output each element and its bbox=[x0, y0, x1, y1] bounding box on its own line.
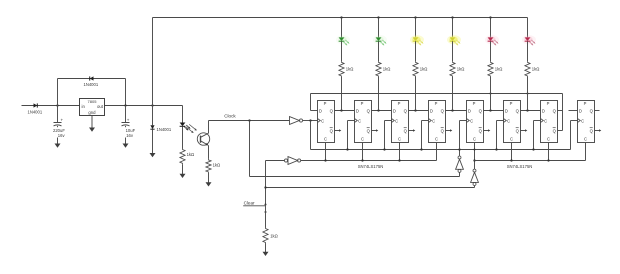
wire — Q1 emitter down to R8 bbox=[208, 145, 210, 159]
node — clear line bank2 at FF7 bbox=[547, 159, 549, 161]
resistor R6 1k bbox=[525, 61, 530, 77]
wire — rail down to green LED D6 bbox=[378, 18, 380, 38]
wire — bypass branch left riser bbox=[57, 79, 59, 106]
label 1N4001 for D1 bbox=[28, 110, 43, 115]
label 220uF 16v bbox=[52, 127, 67, 138]
ground — D3 bbox=[150, 152, 156, 158]
svg-text:1N4001: 1N4001 bbox=[157, 127, 172, 132]
wire — 7805 out to right bbox=[105, 105, 183, 107]
wire — FF1 clear pin down bbox=[325, 143, 327, 161]
svg-text:1kΩ: 1kΩ bbox=[383, 66, 391, 71]
wire — R4 down to Q4 line bbox=[452, 77, 454, 111]
capacitor C2 10uF — wire bbox=[125, 106, 127, 123]
wire — R2 down to Q2 line bbox=[378, 77, 380, 111]
wire — FF7 Qbar stub to feedback drop bbox=[558, 130, 563, 132]
inverter U3b — input bubble bbox=[473, 183, 476, 186]
wire — yellow LED D8 to resistor R4 bbox=[452, 41, 454, 61]
label 1k for R5 bbox=[495, 66, 503, 71]
wire — main line corner down to LED1 bbox=[182, 106, 184, 123]
flip-flop FF6 (1/4 SN74LS175N) bbox=[504, 101, 521, 143]
wire — LED1 to R7 bbox=[182, 127, 184, 149]
svg-text:SN74LS175N: SN74LS175N bbox=[507, 164, 533, 169]
wire — FF5 clear pin down bbox=[474, 143, 476, 161]
label 1k for R4 bbox=[457, 66, 465, 71]
wire — rail down to red LED D10 bbox=[527, 18, 529, 38]
diode D2 1N4001 (regulator bypass) bbox=[90, 76, 94, 80]
label 1k for R3 bbox=[420, 66, 428, 71]
wire — Vcc top rail bbox=[153, 17, 528, 19]
resistor R7 1k (LED current limit) bbox=[180, 149, 185, 165]
wire — FF7 clock riser from clock line bbox=[532, 121, 540, 151]
wire — C1 to ground bbox=[57, 126, 59, 143]
node — clear line bank2 at FF6 bbox=[510, 159, 512, 161]
label + for C1 bbox=[61, 117, 64, 122]
node — clear line at FF3 bbox=[398, 159, 400, 161]
flip-flop FF4 (1/4 SN74LS175N) bbox=[429, 101, 446, 143]
wire — FF4 clock riser from clock line bbox=[420, 121, 428, 151]
node — top rail tap 2 bbox=[377, 16, 379, 18]
svg-text:C: C bbox=[395, 119, 398, 124]
svg-text:D: D bbox=[319, 108, 322, 113]
red LED D10 bbox=[522, 35, 536, 45]
wire — R6 down to Q6 line bbox=[527, 77, 529, 111]
svg-text:+: + bbox=[61, 117, 64, 122]
inverter U3a — input bubble bbox=[458, 169, 461, 172]
svg-text:1kΩ: 1kΩ bbox=[420, 66, 428, 71]
wire — FF6 Q to FF7 D bbox=[521, 110, 541, 112]
wire — FF4 Q to FF5 D bbox=[446, 110, 467, 112]
wire — R5 down to Q5 line bbox=[490, 77, 492, 111]
wire — FF3 Q to FF4 D bbox=[409, 110, 429, 112]
wire — FF2 clear pin down bbox=[362, 143, 364, 161]
label SN74LS175N (second package) bbox=[507, 164, 533, 169]
node — top rail tap 4 bbox=[451, 16, 453, 18]
svg-text:P: P bbox=[324, 101, 327, 106]
wire — FF8 clock riser bbox=[571, 121, 578, 150]
capacitor C1 220uF — wire bbox=[57, 106, 59, 123]
inverter U2b — input bubble bbox=[284, 159, 287, 162]
svg-text:1kΩ: 1kΩ bbox=[213, 163, 221, 168]
wire — FF2 Qbar stub (n.c.) bbox=[372, 129, 379, 131]
wire — AC input main supply line bbox=[22, 105, 80, 107]
node — Q4 to indicator column bbox=[451, 109, 453, 111]
svg-text:1kΩ: 1kΩ bbox=[457, 66, 465, 71]
inverter U3a — triangle bbox=[456, 159, 464, 169]
wire — U3b output to clear line bank 2 bbox=[474, 161, 476, 170]
wire — clock line from Q1 to inverter U2a bbox=[209, 120, 290, 122]
inverter U3b — output bubble bbox=[473, 169, 476, 172]
svg-text:C: C bbox=[584, 137, 587, 142]
label 1k for R8 bbox=[213, 163, 221, 168]
wire — clock distribution line under FFs bbox=[311, 149, 571, 151]
wire — FF8 clear pin down bbox=[585, 143, 587, 161]
inverter U2b — output bubble bbox=[298, 159, 301, 162]
svg-text:7805: 7805 bbox=[88, 99, 98, 104]
wire — rail down to yellow LED D7 bbox=[415, 18, 417, 38]
svg-text:P: P bbox=[510, 101, 513, 106]
svg-text:C: C bbox=[470, 119, 473, 124]
wire — clear line bank 1 from U2b bbox=[301, 160, 437, 162]
svg-text:gnd: gnd bbox=[88, 110, 96, 115]
wire — feedback drop at FF7 Q bbox=[562, 94, 564, 131]
label Clock bbox=[224, 113, 236, 118]
phototransistor Q1 — emitter lead with arrow bbox=[201, 141, 209, 146]
flip-flop FF3 (1/4 SN74LS175N) bbox=[392, 101, 409, 143]
wire — D3 to ground bbox=[152, 129, 154, 152]
wire — clock tap drop bbox=[249, 121, 251, 177]
capacitor C1 220uF plates bbox=[54, 123, 62, 126]
svg-text:C: C bbox=[435, 137, 438, 142]
inverter U3a — input wire riser bbox=[459, 172, 461, 176]
wire — FF4 Qbar stub (n.c.) bbox=[446, 129, 453, 131]
node — junction main line / Vcc riser / D3 bbox=[151, 104, 153, 106]
wire — FF3 Qbar stub (n.c.) bbox=[409, 129, 416, 131]
label 1k for R7 bbox=[187, 152, 195, 157]
svg-text:1N4001: 1N4001 bbox=[28, 110, 43, 115]
svg-text:D: D bbox=[579, 108, 582, 113]
wire — FF7 Q stub to feedback drop bbox=[558, 110, 563, 112]
label Clear bbox=[244, 201, 255, 206]
wire — D3 branch down bbox=[152, 106, 154, 126]
wire — FF3 clear pin down bbox=[399, 143, 401, 161]
wire — bypass top line bbox=[58, 78, 126, 80]
node — FF5 clear pin crossing clock line bbox=[474, 149, 476, 151]
resistor R9 1k (clear pulldown) bbox=[263, 228, 268, 244]
ground — R7 bbox=[180, 172, 186, 178]
svg-text:1N4001: 1N4001 bbox=[84, 82, 99, 87]
wire — green LED D5 to resistor R1 bbox=[341, 41, 343, 61]
flip-flop FF7 (1/4 SN74LS175N) bbox=[541, 101, 558, 143]
svg-text:C: C bbox=[358, 119, 361, 124]
svg-text:1kΩ: 1kΩ bbox=[270, 234, 278, 239]
inverter U2a — output bubble bbox=[299, 119, 302, 122]
wire — FF5 Q to FF6 D bbox=[484, 110, 504, 112]
inverter U2b — input wire bbox=[266, 160, 285, 162]
svg-text:D: D bbox=[393, 108, 396, 113]
wire — FF4 clear pin down bbox=[436, 143, 438, 161]
node — U3a output joins clock line bbox=[458, 148, 460, 150]
diode D1 1N4001 (series input diode) bbox=[34, 103, 38, 107]
svg-text:C: C bbox=[544, 119, 547, 124]
inverter U3a — output bubble bbox=[458, 156, 461, 159]
svg-text:P: P bbox=[584, 101, 587, 106]
node — Q1 to indicator column bbox=[340, 109, 342, 111]
wire — U3a output to clock line bbox=[459, 150, 461, 156]
label 10uF 16v bbox=[124, 127, 136, 138]
label SN74LS175N (first package) bbox=[358, 164, 384, 169]
svg-text:D: D bbox=[356, 108, 359, 113]
phototransistor Q1 — circle bbox=[197, 133, 209, 145]
node — junction main line / bypass left / C1 bbox=[56, 104, 58, 106]
svg-text:1kΩ: 1kΩ bbox=[187, 152, 195, 157]
resistor R1 1k bbox=[339, 61, 344, 77]
svg-text:D: D bbox=[468, 108, 471, 113]
switch S1 — contact top bbox=[265, 204, 267, 206]
node — clear tap junction bbox=[264, 186, 266, 188]
label 1k for R9 bbox=[270, 234, 278, 239]
flip-flop FF1 (1/4 SN74LS175N) bbox=[318, 101, 335, 143]
flip-flop FF8 (1/4 SN74LS175N) bbox=[578, 101, 595, 143]
yellow LED D7 bbox=[410, 35, 424, 45]
wire — FF8 Qbar stub (n.c.) bbox=[595, 129, 602, 131]
svg-text:C: C bbox=[510, 137, 513, 142]
inverter U3b — triangle bbox=[471, 172, 479, 182]
resistor R4 1k bbox=[450, 61, 455, 77]
wire — bypass branch right riser bbox=[125, 79, 127, 106]
wire — clear net riser to U2b input bbox=[265, 161, 267, 205]
svg-text:D: D bbox=[505, 108, 508, 113]
svg-text:P: P bbox=[435, 101, 438, 106]
node — Q2 to indicator column bbox=[377, 109, 379, 111]
svg-text:C: C bbox=[324, 137, 327, 142]
svg-text:C: C bbox=[473, 137, 476, 142]
svg-text:D: D bbox=[542, 108, 545, 113]
wire — R7 to ground bbox=[182, 164, 184, 173]
svg-text:P: P bbox=[361, 101, 364, 106]
wire — rail down to yellow LED D8 bbox=[452, 18, 454, 38]
wire — clock run to inverter U3a input bbox=[250, 176, 460, 178]
inverter U2a — triangle bbox=[290, 117, 300, 125]
node — U2a output / clock distribution drop bbox=[309, 119, 311, 121]
capacitor C2 10uF plates bbox=[122, 123, 130, 126]
label 1k for R2 bbox=[383, 66, 391, 71]
ground — C2 bbox=[123, 142, 129, 148]
yellow LED D8 bbox=[447, 35, 461, 45]
wire — FF7 clear pin down bbox=[548, 143, 550, 161]
wire — U2a output to FF1 clock pin bbox=[303, 120, 318, 122]
svg-text:Clock: Clock bbox=[224, 113, 236, 118]
svg-text:C: C bbox=[547, 137, 550, 142]
svg-text:16v: 16v bbox=[58, 133, 66, 138]
wire — R9 to ground bbox=[265, 244, 267, 251]
wire — Q1 collector up bbox=[208, 121, 210, 134]
node — U3b output joins clear line bbox=[473, 159, 475, 161]
wire — feedback into FF1 D bbox=[311, 110, 318, 112]
svg-text:C: C bbox=[432, 119, 435, 124]
ground — R9 bbox=[263, 250, 269, 256]
svg-text:SN74LS175N: SN74LS175N bbox=[358, 164, 384, 169]
wire — FF1 Qbar stub (n.c.) bbox=[335, 129, 342, 131]
svg-text:P: P bbox=[473, 101, 476, 106]
ground — 7805 gnd bbox=[89, 126, 95, 132]
wire — C2 to ground bbox=[125, 126, 127, 143]
wire — FF2 Q to FF3 D bbox=[372, 110, 392, 112]
wire — rail down to green LED D5 bbox=[341, 18, 343, 38]
label 1k for R1 bbox=[346, 66, 354, 71]
switch S1 — contact bottom bbox=[265, 211, 267, 213]
wire — R1 down to Q1 line bbox=[341, 77, 343, 111]
resistor R3 1k bbox=[413, 61, 418, 77]
phototransistor Q1 — base bar bbox=[200, 136, 202, 143]
wire — switch to R9 bbox=[265, 205, 267, 228]
node — feedback line crossing col5 bbox=[490, 93, 492, 95]
wire — FF1 Q to FF2 D bbox=[335, 110, 355, 112]
node — Q6 to indicator column bbox=[526, 109, 528, 111]
svg-text:C: C bbox=[507, 119, 510, 124]
svg-text:C: C bbox=[361, 137, 364, 142]
svg-text:D: D bbox=[430, 108, 433, 113]
phototransistor Q1 — collector lead bbox=[201, 133, 209, 137]
node — Q5 to indicator column bbox=[489, 109, 491, 111]
wire — FF2 clock riser from clock line bbox=[346, 121, 354, 151]
LED D4 emitter LED of opto pair bbox=[180, 123, 191, 131]
flip-flop FF2 (1/4 SN74LS175N) bbox=[355, 101, 372, 143]
wire — 7805 gnd pin bbox=[91, 116, 93, 127]
node — feedback line crossing col6 bbox=[527, 93, 529, 95]
node — top rail tap 1 bbox=[340, 16, 342, 18]
wire — U3b input riser bbox=[474, 186, 476, 188]
green LED D5 bbox=[336, 35, 350, 45]
svg-text:+: + bbox=[127, 117, 130, 122]
wire — red LED D9 to resistor R5 bbox=[490, 41, 492, 61]
wire — red LED D10 to resistor R6 bbox=[527, 41, 529, 61]
ground — R8 bbox=[206, 181, 212, 187]
svg-text:Clear: Clear bbox=[244, 201, 255, 206]
wire — clear line bank 2 bbox=[475, 160, 586, 162]
svg-text:16v: 16v bbox=[126, 133, 134, 138]
wire — green LED D6 to resistor R2 bbox=[378, 41, 380, 61]
label 1k for R6 bbox=[532, 66, 540, 71]
wire — R3 down to Q3 line bbox=[415, 77, 417, 111]
wire — clear tap line to U3b bbox=[266, 187, 475, 189]
inverter U2b — triangle bbox=[288, 157, 298, 165]
switch S1 — actuator line under label bbox=[243, 205, 265, 207]
label + for C2 bbox=[127, 117, 130, 122]
svg-text:P: P bbox=[547, 101, 550, 106]
wire — Vcc riser to top rail bbox=[152, 18, 154, 106]
wire — FF6 Qbar stub (n.c.) bbox=[521, 129, 528, 131]
flip-flop FF5 (1/4 SN74LS175N) bbox=[467, 101, 484, 143]
ground — C1 bbox=[55, 142, 61, 148]
svg-text:1kΩ: 1kΩ bbox=[346, 66, 354, 71]
wire — FF3 clock riser from clock line bbox=[383, 121, 391, 151]
wire — FF6 clock riser from clock line bbox=[495, 121, 503, 151]
wire — clock distribution drop bbox=[310, 121, 312, 150]
node — junction main line / bypass right / C2 bbox=[124, 104, 126, 106]
green LED D6 bbox=[373, 35, 387, 45]
node — top rail tap 5 bbox=[489, 16, 491, 18]
svg-text:C: C bbox=[321, 119, 324, 124]
node — clear line at FF2 bbox=[361, 159, 363, 161]
wire — R8 to ground bbox=[208, 173, 210, 181]
wire — FF5 clock riser above U3a bbox=[460, 121, 467, 150]
label 1N4001 for D2 bbox=[84, 82, 99, 87]
resistor R8 1k (emitter) bbox=[206, 159, 211, 173]
wire — FF8 D stub bbox=[569, 110, 578, 112]
resistor R2 1k bbox=[376, 61, 381, 77]
wire — FF5 Qbar stub (n.c.) bbox=[484, 129, 491, 131]
wire — FF8 Q stub (n.c.) bbox=[595, 110, 600, 112]
label 1N4001 for D3 bbox=[157, 127, 172, 132]
red LED D9 bbox=[485, 35, 499, 45]
svg-text:P: P bbox=[398, 101, 401, 106]
wire — yellow LED D7 to resistor R3 bbox=[415, 41, 417, 61]
node — top rail tap 3 bbox=[414, 16, 416, 18]
light arrows — LED to phototransistor bbox=[186, 124, 197, 132]
svg-text:1kΩ: 1kΩ bbox=[495, 66, 503, 71]
svg-text:1kΩ: 1kΩ bbox=[532, 66, 540, 71]
regulator U1 7805 bbox=[80, 99, 105, 116]
wire — FF6 clear pin down bbox=[511, 143, 513, 161]
wire — rail down to red LED D9 bbox=[490, 18, 492, 38]
svg-text:C: C bbox=[581, 119, 584, 124]
wire — feedback top line bbox=[311, 93, 563, 95]
resistor R5 1k bbox=[488, 61, 493, 77]
node — clear line at FF1 bbox=[324, 159, 326, 161]
node — Q3 to indicator column bbox=[414, 109, 416, 111]
diode D3 1N4001 (reverse protection) bbox=[150, 125, 154, 129]
svg-text:C: C bbox=[398, 137, 401, 142]
svg-text:out: out bbox=[97, 104, 104, 109]
wire — feedback riser at FF1 D bbox=[310, 94, 312, 111]
node — clock tap to second-bank buffer bbox=[248, 119, 250, 121]
